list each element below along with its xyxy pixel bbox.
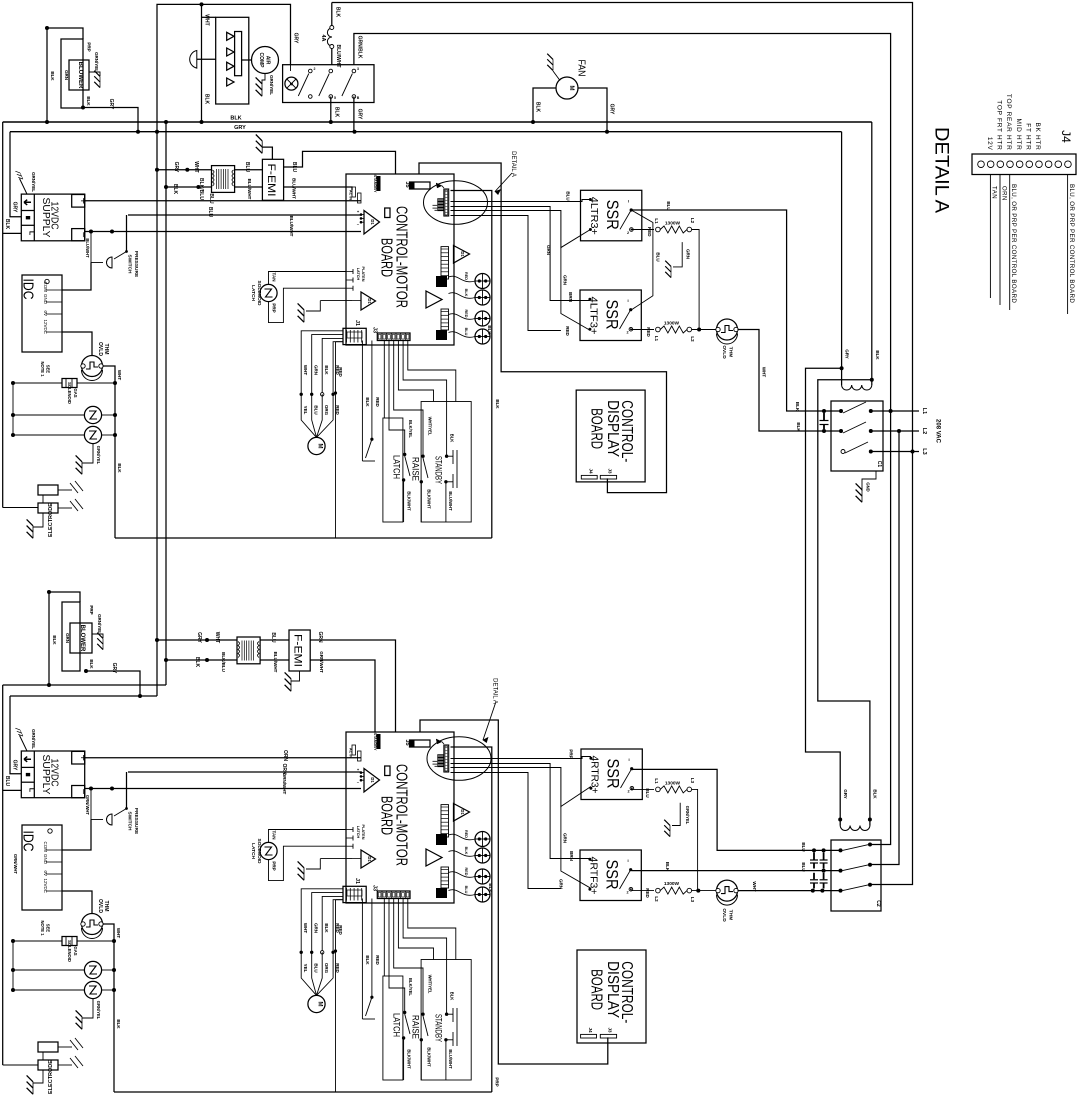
svg-text:BLK: BLK (116, 1019, 121, 1029)
wire GRY-WHT into T2 (157, 639, 237, 641)
svg-text:LATCH: LATCH (392, 1013, 402, 1037)
wire left vertical GRY drop (10, 132, 21, 217)
PS1 minus terminal (72, 229, 85, 241)
diode D4 triangle (426, 291, 442, 308)
board part bar (385, 766, 390, 776)
svg-text:D1: D1 (460, 251, 465, 257)
svg-text:L2: L2 (921, 428, 927, 434)
svg-text:AC IN: AC IN (349, 190, 353, 201)
ground R1 GRN (673, 242, 682, 267)
frame vertical L3 to C2 (870, 452, 913, 885)
igniter spark coil 4 (13, 989, 84, 991)
svg-text:BLK: BLK (535, 102, 541, 113)
svg-text:BLK: BLK (4, 219, 10, 230)
wire WHT drop air comp (201, 4, 203, 122)
svg-text:ORN/WHT: ORN/WHT (282, 773, 287, 795)
contactor C1 contacts (839, 409, 843, 413)
wire C1 L1 out (871, 410, 919, 412)
svg-text:GRN/WHT: GRN/WHT (85, 795, 90, 815)
svg-text:COMP: COMP (258, 53, 264, 69)
svg-text:208 VAC: 208 VAC (935, 419, 941, 444)
switch STANDBY (445, 1013, 448, 1016)
svg-text:GRY: GRY (111, 663, 117, 674)
diode D1 triangle (364, 769, 380, 793)
svg-text:OVLD: OVLD (721, 908, 727, 922)
svg-text:2: 2 (627, 790, 629, 794)
wire F-EMI BLU out to board top (284, 151, 396, 174)
svg-text:GRY: GRY (234, 125, 246, 131)
svg-text:TAN: TAN (272, 273, 277, 282)
svg-text:L2: L2 (690, 336, 695, 342)
svg-text:GRY: GRY (609, 104, 615, 115)
frame vertical L2 to C2 (870, 431, 899, 865)
wire bundle RED to SSR2 3+ (451, 216, 561, 331)
connector J5 (410, 182, 431, 189)
wire 12VDC L pin to left (3, 232, 22, 234)
svg-text:BLK: BLK (665, 862, 670, 872)
svg-text:GAS: GAS (73, 946, 78, 955)
svg-text:BOARD: BOARD (378, 796, 395, 835)
svg-text:BLK: BLK (86, 96, 91, 106)
blower B1 (69, 60, 89, 90)
wire J4 pin return bottom half (451, 747, 492, 1092)
PS2 minus terminal (72, 786, 85, 798)
svg-text:J3: J3 (372, 885, 378, 891)
wire IDC2 COM up (62, 820, 91, 851)
coil K-C1 (841, 132, 843, 385)
svg-text:YEL: YEL (303, 406, 308, 415)
ground fan (553, 71, 560, 81)
board standby bar (377, 734, 381, 749)
svg-text:GRY: GRY (357, 109, 363, 120)
gas solenoid SOL2 (13, 940, 62, 942)
svg-text:DETAIL A: DETAIL A (931, 127, 952, 213)
svg-text:BLU: BLU (801, 862, 806, 871)
svg-text:J3: J3 (608, 1027, 613, 1033)
svg-text:BLK/BLU: BLK/BLU (221, 652, 226, 672)
heater resistor R2 1300W (631, 329, 655, 331)
wire GRN/BLK contactor to right frame (354, 34, 891, 412)
svg-text:WHT: WHT (303, 365, 308, 375)
svg-text:BLU: BLU (314, 405, 319, 414)
wire F-EMI2 GRN out to board2 top (310, 640, 395, 732)
svg-text:2: 2 (627, 231, 629, 235)
connector block CB2 (436, 330, 447, 340)
connector J4 in balloon (444, 189, 449, 216)
transformer T2 (237, 637, 260, 664)
heater plugs (449, 276, 476, 282)
heater resistor R4 1300W (631, 890, 655, 892)
svg-text:MID HTR: MID HTR (1015, 119, 1022, 151)
blower B1 outline loop (47, 28, 83, 122)
wire PS1 + BLU to board (85, 200, 361, 202)
svg-text:STANDBY: STANDBY (434, 1014, 444, 1042)
svg-text:RED: RED (464, 830, 468, 838)
svg-text:LATCH: LATCH (356, 826, 360, 839)
switch STANDBY (445, 455, 448, 458)
svg-text:1300W: 1300W (664, 321, 680, 327)
coil K-C2 (840, 826, 870, 831)
connector J4 display 1 (581, 475, 597, 479)
svg-text:3: 3 (357, 67, 359, 71)
svg-text:RED: RED (565, 326, 570, 336)
svg-text:2: 2 (626, 331, 628, 335)
wire GRY-WHT into T1 (157, 169, 212, 171)
wire J4 BLU/PRP pin10 (1067, 175, 1069, 315)
svg-text:BK HTR: BK HTR (1034, 122, 1041, 150)
diode D1 triangle (364, 211, 380, 235)
svg-text:BLK: BLK (117, 463, 122, 473)
wire bundle BRN to SSR4 (451, 764, 590, 859)
wire IDC COM up (62, 263, 91, 291)
svg-text:M: M (317, 444, 323, 449)
svg-text:C1: C1 (876, 461, 882, 468)
svg-text:GRN: GRN (686, 249, 691, 259)
svg-text:FAN: FAN (576, 60, 587, 77)
svg-text:BLU, OR PRP PER CONTROL BOARD: BLU, OR PRP PER CONTROL BOARD (1010, 184, 1017, 303)
svg-text:BLK: BLK (365, 397, 370, 407)
bell horn (190, 51, 197, 69)
svg-text:BLU: BLU (656, 252, 661, 261)
svg-text:BLU: BLU (4, 776, 10, 787)
wire THM3 to C2 L3 feed (738, 890, 841, 892)
svg-text:GRN/BLK: GRN/BLK (357, 36, 363, 59)
wire bundle GRN to SSR 3+ pins (451, 211, 591, 248)
svg-text:L1: L1 (654, 218, 659, 224)
svg-text:C2: C2 (875, 900, 881, 907)
wire bundle BLU to SSR1 (451, 200, 591, 202)
svg-text:RED: RED (464, 309, 468, 317)
power supply PS1 12VDC (21, 194, 84, 241)
wire K1 pole3 to GRY bus (353, 97, 355, 132)
svg-text:OVLD: OVLD (97, 342, 103, 356)
svg-text:SSR: SSR (603, 860, 622, 890)
svg-text:BLU/WHT: BLU/WHT (273, 652, 278, 673)
svg-text:GRY: GRY (12, 202, 18, 213)
bus GRY horizontal (10, 131, 842, 133)
svg-text:5: 5 (334, 96, 336, 100)
svg-text:J4: J4 (588, 1027, 593, 1033)
svg-text:L3: L3 (921, 448, 927, 454)
ground C1 GND (862, 471, 876, 491)
pointer mark J4 (436, 183, 442, 188)
svg-text:BLK: BLK (172, 184, 178, 195)
svg-text:PRP: PRP (272, 861, 277, 870)
wire blower B1 GRY to bus (83, 108, 138, 132)
svg-text:2: 2 (314, 67, 316, 71)
air comp motor U1 (252, 47, 279, 74)
svg-text:BLU: BLU (270, 632, 276, 643)
svg-text:LATCH: LATCH (392, 455, 402, 479)
thermal overload THM2 (717, 319, 738, 340)
svg-text:GRN/YEL: GRN/YEL (31, 729, 36, 749)
svg-text:WHT: WHT (193, 161, 199, 172)
svg-text:BLK/WHT: BLK/WHT (407, 491, 412, 511)
svg-text:D1: D1 (370, 777, 375, 783)
svg-text:BLK: BLK (230, 116, 241, 122)
svg-text:J1: J1 (354, 320, 360, 326)
igniter spark coil 1 (13, 414, 84, 416)
svg-text:GND: GND (866, 482, 871, 491)
svg-text:4A: 4A (320, 34, 326, 41)
svg-text:SUPPLY: SUPPLY (40, 755, 52, 795)
wire blower B2 GRY (86, 671, 140, 696)
svg-text:I: I (627, 858, 628, 863)
svg-text:GRN/YEL: GRN/YEL (97, 614, 102, 634)
IDC module 2 (22, 825, 62, 910)
svg-text:GRY: GRY (843, 789, 848, 799)
pressure switch PSW1 (107, 257, 113, 268)
PS1 plus terminal (72, 195, 85, 208)
svg-text:2: 2 (626, 891, 628, 895)
svg-text:PRESSURE: PRESSURE (133, 251, 139, 278)
gas solenoid SOL1 (13, 382, 62, 384)
svg-text:GRN/YEL: GRN/YEL (269, 75, 274, 95)
wire left vertical BLK drop (2, 122, 4, 508)
svg-text:BLK/WHT: BLK/WHT (427, 489, 432, 509)
wire bundle BRN to SSR2 (451, 207, 590, 301)
svg-text:SSR: SSR (603, 200, 622, 230)
igniter spark coil 3 (13, 969, 84, 971)
wire R1 to junction (692, 230, 700, 330)
node dots on GRY bus (136, 130, 140, 134)
svg-text:PRESSURE: PRESSURE (133, 808, 139, 835)
wire ORN mid to board2 (128, 771, 361, 773)
ground electrode (33, 513, 43, 527)
svg-text:BLK: BLK (324, 923, 329, 933)
blower B2 (70, 623, 92, 653)
svg-text:THM: THM (728, 910, 734, 920)
svg-text:BLU: BLU (464, 328, 468, 336)
svg-text:SOLENOID: SOLENOID (67, 382, 72, 404)
wire fan BLK lead (533, 88, 556, 122)
svg-text:RED: RED (645, 888, 650, 898)
svg-text:I: I (628, 757, 629, 762)
wires door switch RED/BLK (361, 899, 363, 1020)
svg-text:WHT: WHT (214, 632, 220, 643)
svg-text:RED: RED (338, 925, 343, 935)
svg-text:L3: L3 (690, 778, 695, 784)
wire coil branch to C2 coil left (806, 368, 842, 825)
svg-text:BLU: BLU (566, 191, 571, 200)
svg-text:F-EMI: F-EMI (265, 164, 277, 197)
wire SSR tie SSR1-SSR2 (631, 210, 653, 310)
svg-text:I: I (628, 198, 629, 203)
pins AC IN (352, 187, 356, 197)
ground electrode lower (33, 1070, 43, 1083)
transformer T1 (212, 166, 235, 193)
svg-text:BLU: BLU (291, 162, 297, 173)
svg-text:GRY: GRY (196, 632, 202, 643)
svg-text:BOARD: BOARD (588, 969, 605, 1010)
svg-text:PRP: PRP (569, 749, 574, 758)
svg-text:ORN: ORN (282, 750, 288, 762)
wire BLK-BLK/BLU into T2 (166, 659, 237, 661)
fan motor M-FAN (556, 77, 578, 99)
connector J3 (377, 333, 410, 341)
svg-text:SSR: SSR (604, 759, 623, 789)
svg-text:GRN: GRN (64, 70, 69, 80)
svg-text:GRN/YEL: GRN/YEL (685, 806, 690, 825)
node dots lower lines (47, 683, 51, 687)
wire K1 pole2 to BLK bus (330, 97, 332, 123)
wire igniter left rail lower (12, 941, 14, 990)
svg-text:TOP REAR HTR: TOP REAR HTR (1005, 94, 1012, 151)
wire J1 RED to outer rail (342, 899, 344, 901)
lamp crossed circle in K1 (285, 77, 298, 90)
control-motor board U-MAIN (346, 732, 454, 903)
C2 contact dots (812, 848, 816, 852)
svg-text:WHT: WHT (204, 14, 210, 25)
svg-text:WHT/YEL: WHT/YEL (428, 417, 433, 436)
svg-text:GRN: GRN (314, 923, 319, 933)
pins platen latch (346, 829, 353, 831)
svg-text:BLU: BLU (207, 207, 213, 218)
svg-text:L: L (28, 788, 35, 793)
svg-text:WHT/YEL: WHT/YEL (428, 975, 433, 994)
svg-text:BLOWER: BLOWER (77, 62, 83, 89)
svg-text:COM: COM (43, 282, 48, 293)
svg-text:GRY: GRY (12, 760, 18, 771)
svg-text:J4: J4 (1059, 130, 1073, 143)
contactor C1 box (831, 401, 883, 471)
svg-text:SEE: SEE (46, 365, 51, 374)
wire v166 BLK drop from top bus (165, 122, 167, 685)
wires J1 to motor (301, 331, 343, 395)
svg-text:BLK: BLK (335, 7, 341, 18)
svg-text:GRY: GRY (845, 349, 850, 359)
diode D4 triangle (426, 849, 442, 866)
svg-text:BLK: BLK (450, 992, 455, 1001)
wire THM2 to C1 L2 feed (738, 330, 842, 432)
connector J3 display 2 (600, 1034, 616, 1038)
svg-text:I: I (627, 298, 628, 303)
filter F-EMI 1 (262, 159, 283, 200)
svg-text:BLK: BLK (464, 289, 468, 297)
igniter spark coil 2 (13, 434, 84, 436)
svg-text:WHT: WHT (117, 370, 122, 380)
svg-text:GND: GND (43, 294, 48, 305)
wire fan GRY lead (578, 88, 607, 132)
wire bundle GRN to SSR 3+ pins lower (451, 768, 591, 807)
svg-text:1300W: 1300W (665, 221, 681, 227)
svg-text:RED: RED (646, 327, 651, 337)
wire PS2 + ORN to board2 (85, 757, 361, 759)
wire J1 RED to outer rail (342, 341, 344, 343)
svg-text:D1: D1 (460, 809, 465, 815)
svg-text:PRP: PRP (272, 303, 277, 312)
svg-text:L: L (28, 231, 35, 236)
svg-text:BLK: BLK (52, 635, 57, 645)
latch motor M1 (308, 995, 325, 1012)
svg-text:SWITCH: SWITCH (127, 812, 133, 831)
wire F-EMI BLU/WHT out to board pin (284, 187, 352, 190)
ground flag GRN/YEL PS2 (20, 735, 28, 751)
control display board U6 (576, 390, 645, 482)
latch enclosure rect (383, 418, 403, 522)
svg-text:GRN: GRN (563, 833, 568, 843)
svg-text:D1: D1 (367, 298, 372, 304)
wire R3 down to row3 junction (692, 789, 698, 890)
svg-text:1300W: 1300W (665, 781, 681, 787)
svg-text:SEE: SEE (46, 924, 51, 933)
svg-text:BLK: BLK (50, 71, 55, 81)
svg-text:RAISE: RAISE (411, 1015, 421, 1039)
svg-text:M: M (568, 86, 574, 91)
svg-text:BLK: BLK (487, 325, 492, 335)
svg-text:DETAIL A: DETAIL A (492, 678, 498, 704)
ground F-EMI 2 (291, 671, 300, 681)
wire SSR4 out to C2 L2 feed (632, 870, 841, 872)
svg-text:D1: D1 (367, 856, 372, 862)
diode D3 triangle (454, 804, 470, 822)
svg-text:GAS: GAS (73, 388, 78, 397)
svg-text:ORG: ORG (324, 963, 329, 974)
wire solenoid latch top to board (269, 830, 347, 843)
wires J1 to motor (301, 889, 343, 953)
PS1 input pins arrow B L (24, 200, 31, 205)
wire lower BLK line (3, 684, 166, 686)
board standby bar (377, 176, 381, 191)
contactor C2 contacts (839, 848, 843, 852)
svg-text:GRN/WHT: GRN/WHT (319, 651, 324, 673)
fuse F1 4A (327, 28, 332, 46)
latch enclosure rect (383, 976, 403, 1080)
svg-text:NOTE 1: NOTE 1 (40, 361, 45, 377)
PS2 plus terminal (72, 751, 85, 764)
svg-text:BLK: BLK (873, 789, 878, 799)
svg-text:J4: J4 (589, 468, 594, 474)
ground igniter lower (82, 999, 93, 1018)
solenoid latch SOL-L (260, 842, 277, 859)
svg-text:1300W: 1300W (664, 881, 680, 887)
connector block CB1 (436, 276, 447, 287)
svg-text:ORN: ORN (1001, 186, 1007, 201)
wire PS2 L pin to left (3, 789, 22, 791)
contactor K1 poles (309, 69, 313, 73)
pointer mark J4 (436, 739, 442, 744)
svg-text:STANDBY: STANDBY (373, 174, 377, 193)
svg-text:GRY: GRY (108, 99, 114, 110)
switch RAISE (421, 455, 424, 458)
wire C1 L2 out (871, 430, 919, 432)
svg-text:IDC: IDC (20, 831, 37, 852)
thermal overload THM1 (82, 356, 103, 377)
diode D3 triangle (454, 246, 470, 264)
svg-text:L3: L3 (690, 897, 695, 903)
svg-text:GRN: GRN (314, 365, 319, 375)
wire lower left BLK drop (2, 685, 4, 1065)
filter F-EMI 2 (289, 630, 310, 671)
connector block CB1 (436, 834, 447, 845)
outer rail left (335, 900, 337, 1092)
svg-text:12VDC: 12VDC (43, 878, 48, 893)
blower B2 outline loop (49, 592, 80, 685)
svg-text:AC IN: AC IN (349, 748, 353, 759)
svg-text:J3: J3 (372, 327, 378, 333)
svg-text:BLU/WHT: BLU/WHT (448, 491, 453, 511)
detail balloon (427, 737, 491, 781)
svg-text:J1: J1 (354, 878, 360, 884)
svg-text:BLOWER: BLOWER (79, 625, 85, 652)
wire THM1 out (103, 366, 116, 538)
svg-text:FT HTR: FT HTR (1025, 123, 1032, 150)
wire top GRY line (157, 4, 291, 131)
svg-text:GND: GND (43, 854, 48, 865)
ground R3 GRN/YEL (672, 803, 680, 826)
connector J4 display 2 (581, 1034, 597, 1038)
wire electrode feed (3, 507, 38, 509)
